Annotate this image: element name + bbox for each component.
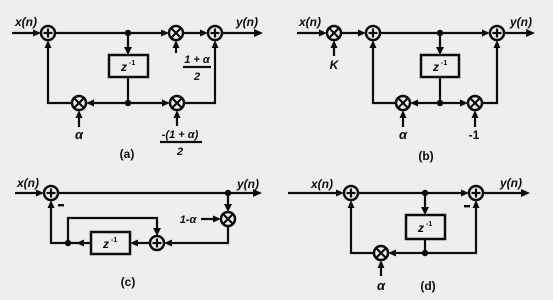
svg-text:(d): (d) <box>420 279 435 293</box>
wire inner loop J2c up right and down to adder A2c <box>68 218 161 243</box>
adder A1b <box>366 26 380 40</box>
wire J2a right to multiplier M3a <box>128 100 170 107</box>
node junction J1d <box>422 190 428 196</box>
svg-text:-1: -1 <box>426 221 432 228</box>
svg-text:z: z <box>417 221 424 235</box>
coefficient K input to MKb <box>331 40 338 56</box>
svg-text:x(n): x(n) <box>298 15 321 29</box>
coefficient alpha input to MLb <box>400 110 407 127</box>
adder A2c <box>150 236 164 250</box>
wire J2b left to multiplier MLb <box>410 100 440 107</box>
wire A1c to output y(n) <box>58 189 262 197</box>
label fraction (1+alpha)/2 <box>183 54 211 83</box>
wire J2a left to multiplier M2a <box>86 100 128 107</box>
coefficient 1-alpha input arrow to MXc <box>201 216 221 223</box>
node junction J1c <box>225 190 231 196</box>
label fraction -(1+alpha)/2 <box>160 129 202 158</box>
wire MDd left and up to adder A1d <box>348 200 375 253</box>
svg-text:(c): (c) <box>121 275 136 289</box>
svg-text:2: 2 <box>193 71 200 83</box>
wire A1a to multiplier M1a <box>55 30 169 37</box>
svg-text:α: α <box>75 127 84 142</box>
wire J2c left and up to adder A1c <box>48 200 69 243</box>
wire A2c to delay Z1c <box>130 240 150 247</box>
delay block Z1c z^-1 <box>91 232 130 254</box>
multiplier MKb <box>327 26 341 40</box>
adder A2a <box>208 26 222 40</box>
wire input x(n) to adder A1d <box>288 190 344 197</box>
coefficient -(1+alpha)/2 input to M3a <box>174 110 181 126</box>
multiplier MXc <box>221 212 235 226</box>
multiplier MDd <box>374 246 388 260</box>
adder A2b <box>490 26 504 40</box>
delay block Z1a z^-1 <box>109 55 148 77</box>
wire J1a down to delay Z1a <box>124 33 132 55</box>
svg-text:x(n): x(n) <box>14 15 37 29</box>
delay block Z1d z^-1 <box>406 215 445 239</box>
wire input x(n) to adder A1c <box>15 190 44 197</box>
svg-text:(b): (b) <box>418 149 433 163</box>
wire J2d left to multiplier MDd <box>388 250 425 257</box>
node junction J2d <box>422 250 428 256</box>
svg-text:1 + α: 1 + α <box>184 54 211 66</box>
wire A2a to output y(n) <box>222 29 263 37</box>
svg-text:α: α <box>399 127 408 142</box>
svg-text:(a): (a) <box>120 147 135 161</box>
node junction J1a <box>125 30 131 36</box>
svg-text:K: K <box>330 58 340 72</box>
svg-text:-1: -1 <box>469 128 480 142</box>
node junction J1b <box>437 30 443 36</box>
wire MRb right and up to adder A2b <box>482 40 501 103</box>
svg-text:z: z <box>120 60 127 74</box>
wire MLb left and up to adder A1b <box>370 40 397 103</box>
svg-text:y(n): y(n) <box>509 15 532 29</box>
svg-text:z: z <box>102 237 109 251</box>
coefficient -1 input to MRb <box>472 110 479 127</box>
coefficient (1+alpha)/2 input to M1a <box>173 40 180 53</box>
adder A1a <box>41 26 55 40</box>
wire J1b down to delay Z1b <box>436 33 444 55</box>
svg-text:y(n): y(n) <box>499 176 522 190</box>
adder A1c <box>44 186 58 200</box>
node junction J2c <box>65 240 71 246</box>
svg-text:x(n): x(n) <box>310 177 333 191</box>
svg-text:-1: -1 <box>129 60 135 67</box>
coefficient alpha input to MDd <box>378 260 385 276</box>
svg-text:z: z <box>432 60 439 74</box>
delay block Z1b z^-1 <box>421 55 459 77</box>
adder A2d <box>469 186 483 200</box>
svg-text:2: 2 <box>176 146 183 158</box>
coefficient alpha input to M2a <box>76 110 83 127</box>
svg-text:x(n): x(n) <box>16 176 39 190</box>
multiplier MLb <box>396 96 410 110</box>
wire Z1c left to junction J2c <box>68 240 91 247</box>
wire J1c down to multiplier MXc <box>224 193 232 212</box>
svg-text:-(1 + α): -(1 + α) <box>162 129 199 141</box>
wire J2d right and up to adder A2d <box>425 200 480 253</box>
wire MXc down and left to adder A2c <box>164 226 228 247</box>
wire J2b right to multiplier MRb <box>440 100 468 107</box>
multiplier M1a <box>169 26 183 40</box>
svg-text:-1: -1 <box>441 60 447 67</box>
svg-text:y(n): y(n) <box>236 177 259 191</box>
node junction J2b <box>437 100 443 106</box>
multiplier M2a <box>72 96 86 110</box>
label minus sign at A1c <box>58 204 64 206</box>
wire J1d down to delay Z1d <box>421 193 429 215</box>
wire A2b to output y(n) <box>504 29 535 37</box>
multiplier M3a <box>170 96 184 110</box>
wire Z1b down to junction J2b <box>439 77 441 103</box>
wire M1a to adder A2a <box>183 30 208 37</box>
wire input x(n) to multiplier MKb <box>297 30 327 37</box>
svg-text:1-α: 1-α <box>180 214 198 226</box>
wire M3a right and up to adder A2a <box>184 40 219 103</box>
wire Z1a down to junction J2a <box>127 77 129 103</box>
wire input x(n) to adder A1a <box>12 30 41 37</box>
svg-text:α: α <box>377 278 386 293</box>
label minus sign at A2d <box>464 205 470 207</box>
wire M2a left and up to adder A1a <box>45 40 73 103</box>
svg-text:y(n): y(n) <box>235 15 258 29</box>
wire A1b to adder A2b <box>380 30 490 37</box>
svg-text:-1: -1 <box>111 237 117 244</box>
adder A1d <box>344 186 358 200</box>
wire MKb to adder A1b <box>341 30 366 37</box>
wire A2d to output y(n) <box>483 189 530 197</box>
multiplier MRb <box>468 96 482 110</box>
wire Z1d down to junction J2d <box>424 239 426 253</box>
node junction J2a <box>125 100 131 106</box>
wire A1d to adder A2d <box>358 190 469 197</box>
